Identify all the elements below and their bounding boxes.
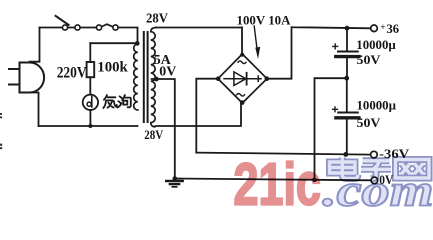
arrow from label to bridge: [254, 26, 257, 47]
svg-text:.com: .com: [323, 166, 433, 208]
wire secondary bottom 28V: [156, 104, 242, 127]
svg-text:50V: 50V: [357, 115, 382, 130]
wire left down to plug: [30, 28, 40, 62]
plus sign in bridge: [256, 76, 261, 81]
svg-text:0V: 0V: [159, 64, 176, 79]
transformer T1 primary winding: [134, 44, 138, 110]
ac tilde bottom: [237, 94, 245, 97]
node neon-bottom junction: [88, 124, 92, 128]
transformer T1 secondary winding: [151, 28, 156, 127]
label naipao (Chinese: neon bulb) drawn strokes: [103, 95, 131, 108]
wire center tap to ground: [152, 79, 175, 179]
wire bridge plus output: [267, 27, 371, 78]
node bridge left: [216, 76, 221, 81]
svg-text:50V: 50V: [357, 52, 382, 67]
wire bridge minus output: [196, 79, 218, 153]
node +rail cap1: [345, 26, 350, 31]
wire bottom-left horizontal: [39, 125, 138, 127]
transformer core: [143, 32, 145, 122]
node center tap 0V: [154, 77, 159, 82]
resistor 100k: [87, 62, 95, 77]
diode inside bridge: [229, 78, 255, 80]
node junction primary/branch: [135, 41, 140, 46]
terminal +36: [371, 25, 378, 32]
bridge rectifier 100V 10A: [218, 54, 267, 103]
neon lamp: [83, 95, 98, 110]
svg-text:220V: 220V: [57, 65, 88, 82]
wire top-left horizontal: [40, 27, 63, 29]
wire between switches: [80, 27, 96, 29]
wire resistor branch top: [90, 42, 137, 44]
plug P1: [20, 63, 45, 93]
wire secondary top to bridge: [156, 27, 242, 29]
capacitor C1 10000u: [346, 28, 348, 51]
svg-text:+: +: [380, 22, 385, 32]
svg-text:100k: 100k: [97, 60, 128, 76]
node bridge bottom: [240, 100, 245, 105]
svg-text:36: 36: [387, 22, 400, 36]
watermark: [234, 153, 433, 218]
minus sign in bridge: [224, 78, 229, 80]
terminal -36V: [371, 151, 378, 158]
node 0V rail: [312, 178, 317, 183]
left edge specks: [0, 113, 2, 115]
wire to primary top: [118, 28, 137, 45]
svg-text:10000µ: 10000µ: [356, 38, 396, 52]
terminal 0V: [371, 177, 378, 184]
node bridge right: [265, 76, 270, 81]
svg-text:100V 10A: 100V 10A: [237, 14, 291, 28]
svg-text:10000µ: 10000µ: [357, 99, 397, 113]
node cap2 to -36 rail: [343, 152, 348, 157]
plug bottom lead: [30, 93, 39, 127]
capacitor C2 10000u: [346, 78, 348, 112]
switch S1: [62, 25, 67, 30]
node mid caps: [344, 76, 349, 81]
ac tilde top: [238, 61, 246, 64]
wire 0V rail: [175, 179, 371, 181]
switch S2: [96, 25, 101, 30]
watermark dianzi wang (Chinese: electronics net) outlined: [330, 158, 430, 179]
wire -36V rail: [196, 153, 370, 155]
ground: [173, 176, 178, 181]
svg-text:28V: 28V: [146, 11, 168, 26]
node bridge top: [240, 53, 244, 57]
svg-text:28V: 28V: [144, 127, 164, 142]
svg-text:21ic: 21ic: [234, 153, 321, 207]
wire mid-cap to 0V rail: [315, 78, 347, 180]
